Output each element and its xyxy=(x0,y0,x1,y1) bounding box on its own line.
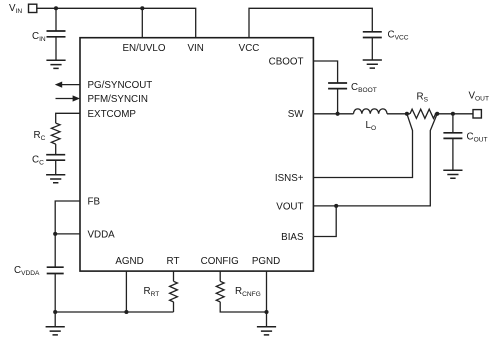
ground COUT xyxy=(443,170,462,178)
wire EN/UVLO drop xyxy=(141,8,143,37)
ground CC xyxy=(46,175,65,183)
resistor RCNFG xyxy=(216,281,224,302)
wire VDDA xyxy=(55,233,80,235)
svg-text:VDDA: VDDA xyxy=(88,230,116,241)
capacitor CVDDA xyxy=(47,267,64,273)
wire CONFIG drop xyxy=(220,271,266,312)
junction left rail xyxy=(53,310,57,314)
wire VOUT sense xyxy=(313,114,437,206)
svg-text:CBOOT: CBOOT xyxy=(269,56,304,67)
wire AGND drop xyxy=(125,271,127,312)
svg-text:RT: RT xyxy=(167,256,180,267)
wire CIN top xyxy=(55,8,57,31)
resistor RS xyxy=(410,109,436,118)
wire BIAS xyxy=(313,206,336,237)
junction RS left xyxy=(405,112,409,116)
wire RC to CC xyxy=(55,144,57,155)
svg-text:VCC: VCC xyxy=(239,43,260,54)
junction COUT xyxy=(451,112,455,116)
svg-text:VIN: VIN xyxy=(188,43,204,54)
wire SW xyxy=(313,113,353,115)
junction AGND xyxy=(124,310,128,314)
wire PGND drop xyxy=(266,271,268,327)
svg-text:PG/SYNCOUT: PG/SYNCOUT xyxy=(88,80,153,91)
wire FB xyxy=(55,201,80,234)
capacitor CVCC xyxy=(363,32,382,38)
wire LO to RS xyxy=(387,113,410,115)
svg-text:SW: SW xyxy=(288,109,305,120)
wire CVCC bottom xyxy=(371,38,373,61)
ground CVDDA xyxy=(46,327,65,335)
svg-text:EN/UVLO: EN/UVLO xyxy=(122,43,165,54)
node VIN terminal xyxy=(29,4,37,12)
IC U1 body xyxy=(80,38,313,271)
capacitor COUT xyxy=(443,133,462,139)
wire left rail xyxy=(55,311,173,313)
ground CIN xyxy=(46,60,65,68)
svg-text:EXTCOMP: EXTCOMP xyxy=(88,109,137,120)
wire RS to VOUT terminal xyxy=(435,113,473,115)
wire VIN rail xyxy=(37,8,196,37)
wire CC bottom xyxy=(55,160,57,175)
svg-text:AGND: AGND xyxy=(115,256,143,267)
wire CBOOT to SW xyxy=(337,89,339,114)
junction RS right xyxy=(435,112,439,116)
wire to ground xyxy=(54,312,56,327)
junction CIN xyxy=(54,6,58,10)
junction EN/UVLO xyxy=(140,6,144,10)
svg-text:VOUT: VOUT xyxy=(276,201,303,212)
junction BIAS xyxy=(334,204,338,208)
arrow PFM/SYNCIN xyxy=(56,98,74,100)
arrow PG/SYNCOUT xyxy=(62,84,81,86)
wire CBOOT pin xyxy=(313,61,337,83)
wire EXTCOMP xyxy=(56,113,80,123)
ground PGND xyxy=(257,327,276,335)
svg-text:ISNS+: ISNS+ xyxy=(275,173,304,184)
wire VCC rail xyxy=(249,8,372,37)
capacitor CBOOT xyxy=(328,83,347,89)
wire COUT bottom xyxy=(452,138,454,170)
wire RT drop xyxy=(173,271,175,312)
svg-text:PGND: PGND xyxy=(252,256,280,267)
capacitor CIN xyxy=(47,31,66,37)
svg-text:BIAS: BIAS xyxy=(281,232,304,243)
junction PGND xyxy=(264,310,268,314)
resistor RRT xyxy=(170,281,178,302)
junction SW/CBOOT xyxy=(336,112,340,116)
resistor RC xyxy=(51,123,60,144)
inductor LO xyxy=(354,109,388,114)
wire CVDDA bottom xyxy=(54,274,56,313)
node VOUT terminal xyxy=(473,110,481,118)
svg-text:PFM/SYNCIN: PFM/SYNCIN xyxy=(88,94,148,105)
wire CIN bottom xyxy=(55,37,57,61)
svg-text:CONFIG: CONFIG xyxy=(201,256,239,267)
capacitor CC xyxy=(46,155,65,161)
wire ISNS+ sense xyxy=(313,114,412,178)
ground CVCC xyxy=(363,60,382,68)
wire VDDA to CVDDA xyxy=(54,234,56,267)
svg-text:FB: FB xyxy=(88,197,101,208)
wire COUT top xyxy=(452,114,454,133)
junction VDDA xyxy=(53,232,57,236)
